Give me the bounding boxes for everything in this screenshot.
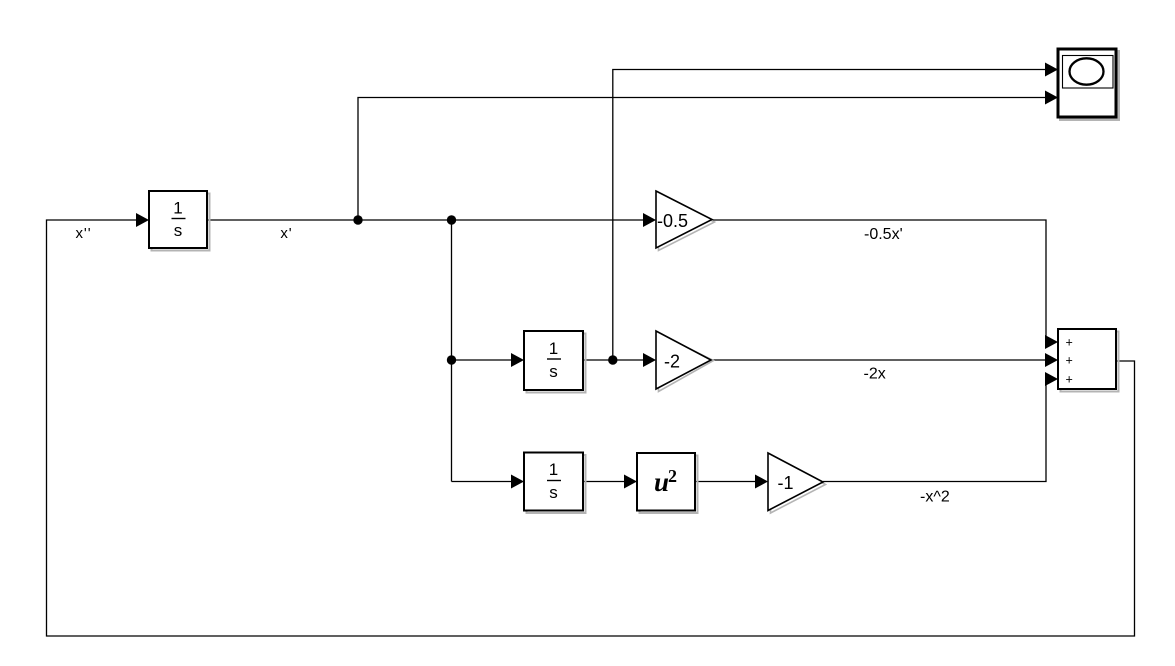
integrator block U2 1/s [524, 331, 583, 390]
arrowhead into Gain -0.5 [643, 213, 656, 227]
svg-text:x': x' [280, 225, 292, 242]
gain block G1 -0.5 [656, 191, 712, 248]
wire branch x up to Scope upper input [613, 70, 1045, 361]
arrowhead into Sum input 1 [1045, 335, 1058, 349]
wire u^2 output to Gain -1 input [695, 481, 756, 483]
svg-text:x'': x'' [76, 225, 92, 242]
svg-text:u: u [654, 467, 669, 497]
gain block G2 -2 [656, 331, 711, 389]
wire branch x' up to Scope lower input [358, 98, 1045, 221]
integrator block U1 1/s [149, 191, 207, 248]
svg-text:+: + [1066, 354, 1073, 368]
arrowhead into Sum input 3 [1045, 372, 1058, 386]
junction node dot x' to integrators branch [447, 215, 456, 224]
arrowhead into Sum input 2 [1045, 353, 1058, 367]
svg-text:s: s [549, 362, 558, 381]
junction node dot x' to scope branch [353, 215, 362, 224]
integrator block U2 1/s shadow [527, 334, 586, 393]
sum block shadow [1061, 332, 1119, 392]
math function block u^2 [637, 453, 695, 511]
integrator block U3 1/s shadow [527, 455, 586, 513]
wire Integrator3 output to u^2 input [583, 481, 625, 483]
wire Gain -2 output to Sum input 2 [711, 359, 1045, 361]
wire Gain -0.5 output to Sum input 1 [712, 220, 1046, 342]
wire feedback loop: Sum output right side, bottom, left side up to Integrator1 input [47, 220, 1135, 636]
svg-text:-0.5: -0.5 [657, 211, 688, 231]
svg-text:+: + [1066, 336, 1073, 350]
wire x' row: Integrator1 output to Gain -0.5 input [207, 219, 644, 221]
gain block G3 -1 shadow [771, 456, 826, 514]
arrowhead into Gain -1 [755, 475, 768, 489]
svg-text:s: s [549, 483, 558, 502]
svg-text:1: 1 [549, 460, 558, 479]
sum block with three + inputs [1058, 329, 1116, 389]
junction node dot x to scope branch [608, 355, 617, 364]
arrowhead into Integrator2 [511, 353, 524, 367]
node label x'' [76, 225, 92, 242]
node label x' [280, 225, 292, 242]
svg-text:1: 1 [549, 339, 558, 358]
net label -0.5x' [864, 226, 903, 243]
svg-text:s: s [174, 221, 183, 240]
svg-text:1: 1 [173, 199, 182, 218]
math function block u^2 shadow [640, 456, 698, 514]
gain block G1 -0.5 shadow [659, 194, 715, 251]
svg-text:-0.5x': -0.5x' [864, 226, 903, 243]
svg-text:-x^2: -x^2 [920, 489, 950, 506]
wire Gain -1 output to Sum input 3 [823, 379, 1046, 482]
arrowhead into Integrator3 [511, 475, 524, 489]
svg-text:-2x: -2x [864, 366, 886, 383]
gain block G2 -2 shadow [659, 334, 714, 392]
integrator block U3 1/s [524, 453, 583, 511]
svg-text:+: + [1066, 373, 1073, 387]
arrowhead into Gain -2 [643, 353, 656, 367]
svg-text:-1: -1 [778, 473, 794, 493]
svg-text:2: 2 [668, 466, 677, 486]
integrator block U1 1/s shadow [152, 194, 210, 251]
net label -x^2 [920, 489, 950, 506]
gain block G3 -1 [768, 453, 823, 511]
arrowhead into Scope lower input [1045, 91, 1058, 105]
wire Integrator2 output to Gain -2 input [583, 359, 644, 361]
wire branch x' down to Integrator2 and Integrator3 inputs [452, 220, 512, 482]
arrowhead into Integrator1 [136, 213, 149, 227]
arrowhead into u^2 block [624, 475, 637, 489]
scope block shadow [1061, 52, 1119, 120]
svg-text:-2: -2 [664, 352, 680, 372]
junction node dot x branch to integrator3 [447, 355, 456, 364]
scope block (XY graph) [1058, 49, 1116, 117]
net label -2x [864, 366, 886, 383]
arrowhead into Scope upper input [1045, 63, 1058, 77]
